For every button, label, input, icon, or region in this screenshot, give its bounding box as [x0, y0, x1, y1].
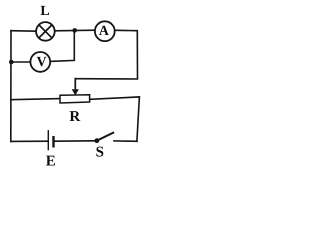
- svg-text:V: V: [37, 55, 47, 70]
- svg-text:S: S: [96, 145, 104, 161]
- svg-text:L: L: [40, 4, 49, 19]
- svg-text:A: A: [99, 24, 110, 39]
- svg-text:E: E: [46, 154, 56, 170]
- svg-text:R: R: [69, 109, 80, 125]
